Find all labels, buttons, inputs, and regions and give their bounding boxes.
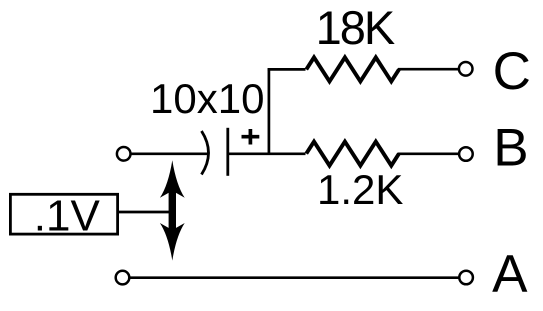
svg-text:A: A (492, 245, 528, 304)
wire box to arrow (118, 211, 172, 214)
wire capacitor to resistor B (228, 152, 306, 155)
wire resistor 1.2K to terminal B (398, 152, 459, 155)
source box .1V (10, 194, 117, 234)
resistor R2 1.2K (306, 142, 399, 166)
svg-text:10x10: 10x10 (150, 75, 264, 122)
capacitor curved plate (202, 131, 209, 175)
double arrow symbol (160, 160, 185, 260)
terminal B circle (459, 147, 473, 161)
svg-text:B: B (493, 118, 528, 177)
wire junction vertical (268, 68, 271, 154)
wire junction to resistor 18K (268, 68, 306, 71)
svg-text:.1V: .1V (34, 191, 101, 240)
terminal input left (B row) (117, 147, 131, 161)
terminal C circle (459, 62, 473, 76)
capacitor straight plate (226, 128, 229, 176)
capacitor plus sign (242, 129, 260, 145)
wire A row (130, 276, 460, 279)
resistor R1 18K (306, 57, 399, 81)
svg-text:1.2K: 1.2K (317, 166, 403, 213)
svg-text:18K: 18K (316, 1, 395, 54)
terminal left (A row) (116, 271, 130, 285)
wire resistor 18K to terminal C (398, 68, 459, 71)
wire input to capacitor (131, 152, 208, 155)
terminal A circle (459, 271, 473, 285)
svg-text:C: C (493, 42, 531, 101)
